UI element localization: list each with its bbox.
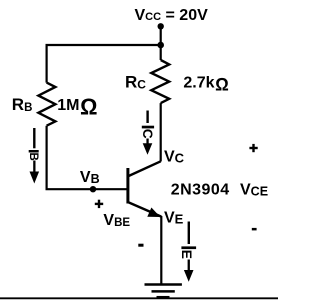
svg-text:VC: VC (164, 149, 185, 166)
svg-text:VB: VB (80, 169, 100, 186)
svg-text:C: C (140, 129, 155, 139)
svg-text:B: B (27, 153, 39, 161)
svg-text:E: E (179, 250, 195, 259)
svg-text:VCE: VCE (240, 182, 268, 199)
svg-text:2N3904: 2N3904 (171, 182, 230, 199)
svg-text:VE: VE (164, 209, 184, 226)
svg-text:2.7kΩ: 2.7kΩ (183, 74, 229, 94)
